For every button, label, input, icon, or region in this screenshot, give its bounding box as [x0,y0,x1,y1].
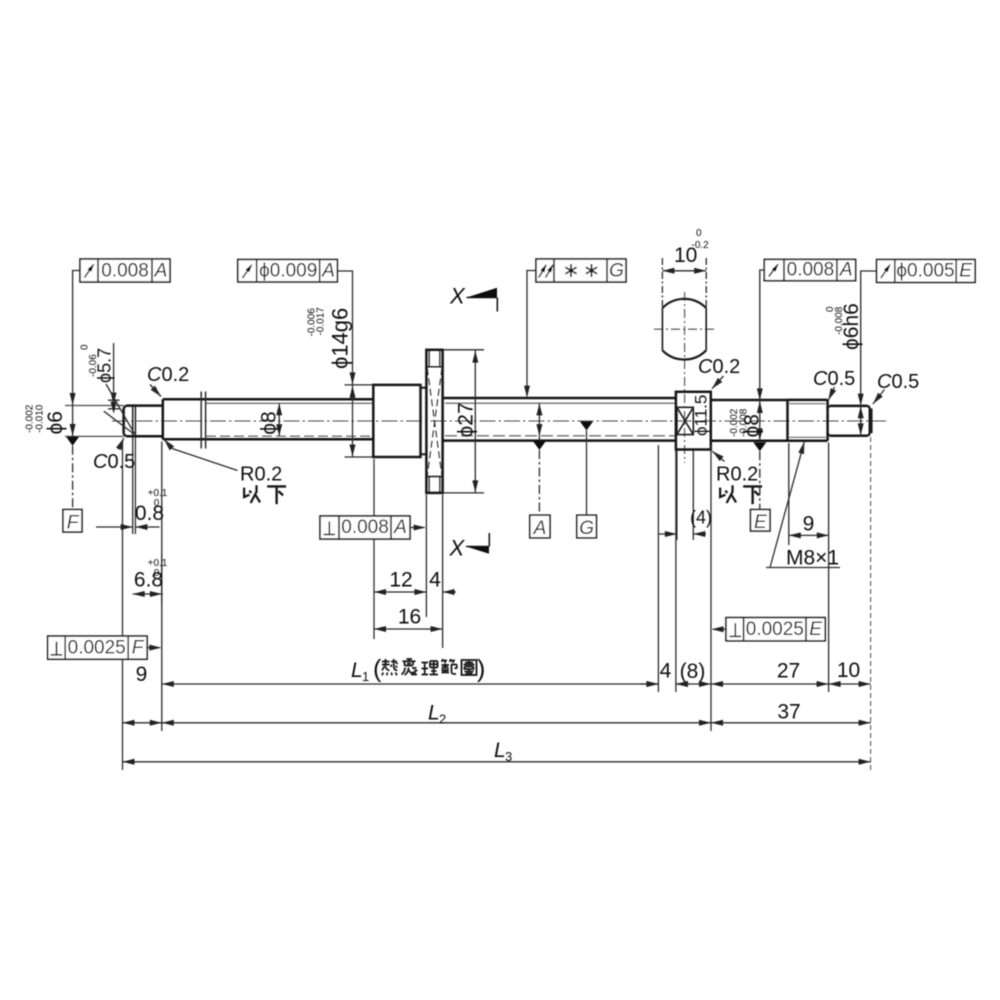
groove end-view center axis [654,292,714,463]
dim row1: 10 [829,683,871,685]
svg-text:27: 27 [777,660,800,683]
svg-text:F: F [132,638,145,659]
svg-text:C0.2: C0.2 [698,356,740,378]
frame F leader arrow [147,647,160,649]
svg-text:2: 2 [439,712,446,727]
svg-text:0.0025: 0.0025 [68,638,126,659]
svg-text:L: L [351,659,363,682]
phi5.7 dimension line and ticks [113,343,115,412]
C0.2 left leader [151,386,164,399]
svg-text:ϕ27: ϕ27 [455,402,478,437]
thread start tick marks [201,392,205,449]
svg-text:ϕ0.005: ϕ0.005 [896,261,954,282]
C0.2 right leader [710,378,723,391]
disc cross (X) dashed [427,368,442,476]
svg-text:C0.2: C0.2 [147,364,189,386]
svg-text:X: X [449,284,466,309]
svg-text:0: 0 [696,228,702,239]
phi14g6 boss [373,385,420,457]
asterisk 1 [565,264,576,277]
svg-text:(8): (8) [680,660,706,683]
svg-text:M8×1: M8×1 [786,547,839,570]
svg-text:3: 3 [505,749,512,764]
svg-text:R0.2: R0.2 [716,464,758,486]
C0.5 middle leader [826,388,837,401]
svg-text:-0.008: -0.008 [834,306,845,335]
svg-text:E: E [959,261,972,282]
left stub (phi6 journal) [124,406,163,437]
datum G triangle on centerline [580,422,593,431]
svg-text:C0.5: C0.5 [93,451,135,473]
dim 4 disc [443,591,456,593]
feature control frame 4: runout 0.008 A [764,259,855,280]
perpendicularity frame E (bottom right) [726,618,825,641]
svg-text:0: 0 [154,498,160,509]
svg-text:A: A [154,261,168,282]
dim 10 groove width [662,270,706,272]
svg-text:0.008: 0.008 [787,260,835,281]
svg-text:ϕ11.5: ϕ11.5 [692,395,711,436]
svg-text:-0.002: -0.002 [25,404,36,433]
svg-text:(4): (4) [690,508,712,528]
end face extension line (dashed) [870,437,872,770]
svg-text:A: A [321,261,335,282]
perpendicularity frame A (middle) [320,516,410,539]
svg-text:ϕ6: ϕ6 [44,411,67,434]
svg-text:ϕ8: ϕ8 [258,411,281,434]
svg-text:-0.2: -0.2 [692,240,710,251]
datum E triangle [753,442,766,451]
end view: snap-ring groove cross-section circle with flats [662,299,706,360]
svg-text:(: ( [373,655,382,683]
section marker X lower [466,533,489,547]
dim row1: L1 line [162,683,659,685]
svg-text:10: 10 [837,659,860,682]
dim row2: L2 [162,722,711,724]
svg-text:0.0025: 0.0025 [746,619,804,640]
datum box G [577,515,597,538]
dim 9 M8 thread length [789,534,829,536]
svg-text:G: G [579,518,594,539]
svg-text:-0.017: -0.017 [316,307,327,336]
feature control frame 5: runout phi0.005 E [877,260,976,283]
svg-text:1: 1 [362,669,369,684]
M8 thread root lines [789,404,826,438]
svg-text:R0.2: R0.2 [240,464,282,486]
feature control frame 2: runout phi0.009 A [238,260,337,282]
datum F triangle [66,437,79,446]
C0.5 right leader [871,393,883,406]
dim row3: L3 [123,761,871,763]
datum A root-diameter arrows + triangle [538,403,540,441]
svg-text:-0.06: -0.06 [88,354,99,377]
thread root lines left section [206,403,373,436]
dim 0.8 groove width [96,526,160,528]
svg-text:F: F [67,512,80,533]
snap-ring groove box with X [677,407,693,434]
svg-text:0: 0 [154,568,160,579]
svg-text:L: L [428,702,440,725]
svg-text:0.8: 0.8 [135,502,164,525]
R0.2 left leader [162,437,174,450]
frame1 leader + phi6 dimension line [73,271,120,437]
C0.5 left leader [116,437,127,450]
frame4 leader + phi8 right dimension [760,270,765,441]
asterisk 2 [586,264,597,277]
svg-text:12: 12 [389,569,412,592]
svg-text:ϕ0.009: ϕ0.009 [259,261,317,282]
svg-text:L: L [494,739,506,762]
extension lines vertical (bottom chain) [123,437,829,770]
text ikalower right [720,485,736,503]
relief ring between boss and disc [421,385,427,457]
M8 thread section [788,400,828,441]
svg-text:A: A [393,517,407,538]
M8x1 leader [798,441,807,454]
frame3 leader [527,271,536,397]
svg-text:C0.5: C0.5 [877,371,919,393]
svg-text:A: A [533,518,547,539]
dim 10 groove width extension lines [662,258,706,308]
phi6h6 end journal [828,406,872,436]
phi27 disc [426,350,442,493]
svg-text:0.008: 0.008 [101,261,149,282]
svg-text:C0.5: C0.5 [813,368,855,390]
svg-text:A: A [839,260,853,281]
datum box E [751,510,771,532]
phi5.7 leader diagonals [104,384,135,434]
disc rim lines [426,351,442,492]
feature control frame 1: runout 0.008 A [80,259,170,282]
svg-text:0.008: 0.008 [341,517,389,538]
datum box A [530,515,550,538]
svg-text:ϕ14g6: ϕ14g6 [328,308,353,369]
svg-text:): ) [477,655,485,683]
svg-text:E: E [809,619,822,640]
dim row1: 4 outside arrows [640,683,690,685]
circlip groove on stub [133,406,136,436]
phi27 extension lines [444,350,484,493]
phi6 extension lines [65,406,124,437]
text ikalower left [244,485,260,503]
dim row1: 27 [711,683,829,685]
svg-text:9: 9 [136,663,148,686]
perpendicularity frame A leader [410,527,425,529]
dim 16 [374,628,443,630]
dim row1: (8) [676,683,711,685]
svg-text:G: G [609,261,624,282]
svg-text:-0.008: -0.008 [739,408,750,437]
shaft centerline [112,420,886,422]
frame5 leader + phi6h6 dimension [861,271,877,437]
feature control frame 3: total runout ** G [536,259,626,282]
datum box F [63,510,82,533]
phi8 right journal [711,400,788,441]
svg-text:E: E [754,512,767,533]
svg-text:X: X [449,536,466,561]
phi8 left threaded section outline [163,399,373,439]
phi8 left dimension [278,403,280,436]
svg-text:37: 37 [777,701,800,724]
phi14 extension lines [345,385,373,457]
dim 6.8 [133,555,163,605]
phi11.5 snap-ring section [676,392,711,450]
svg-text:9: 9 [803,513,815,536]
svg-text:-0.010: -0.010 [35,404,46,433]
middle ball-screw section outline [443,398,676,441]
svg-text:0: 0 [80,344,91,350]
svg-text:4: 4 [429,569,441,592]
section marker X upper [467,298,498,312]
R0.2 right leader [710,449,723,461]
frame2 leader + phi14 dimension [337,271,352,457]
frame E leader arrow [713,628,726,630]
svg-text:16: 16 [398,606,421,629]
thread root lines middle section [445,403,676,436]
dim row2: 37 [711,722,871,724]
dim row2: 9 [123,722,162,724]
dim (4) snap groove [659,533,706,535]
dim 12 [374,591,426,593]
perpendicularity frame F (bottom left) [48,636,147,659]
svg-text:4: 4 [660,660,672,683]
phi27 dimension [474,351,476,493]
